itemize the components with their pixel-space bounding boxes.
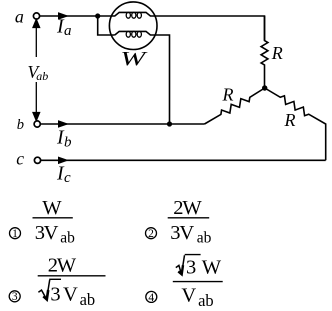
label Vab [28, 62, 49, 83]
svg-text:1: 1 [12, 228, 18, 240]
voltage arrow Vab (upper half, points up to a) [33, 20, 40, 58]
svg-text:a: a [15, 6, 24, 26]
svg-text:ab: ab [36, 69, 48, 83]
svg-text:W: W [57, 255, 77, 277]
value label R (top) [271, 43, 283, 63]
svg-text:4: 4 [148, 292, 154, 304]
svg-text:c: c [16, 149, 24, 169]
current arrow Ib [58, 121, 68, 127]
wattmeter U1 case [109, 2, 157, 50]
resistor R (right, phase c) with leads [265, 88, 326, 160]
svg-text:b: b [64, 135, 72, 151]
current arrow Ia [58, 13, 68, 19]
svg-text:ab: ab [197, 230, 212, 247]
svg-text:V: V [44, 222, 59, 244]
label Ia [56, 16, 72, 40]
svg-text:3: 3 [12, 291, 18, 303]
junction on line b (voltage coil return) [167, 121, 172, 126]
wire: voltage coil left lead (down from junction, right into case) [98, 16, 115, 35]
svg-text:V: V [181, 284, 196, 306]
svg-text:c: c [64, 170, 71, 186]
wattmeter current coil (top) [112, 12, 155, 18]
svg-text:ab: ab [198, 291, 214, 310]
svg-text:R: R [284, 110, 296, 130]
option 3 marker (circled 3) [9, 291, 20, 303]
svg-text:W: W [202, 256, 222, 278]
junction on line a (wattmeter voltage tap) [95, 13, 100, 18]
voltage arrow Vab (lower half, points down to b) [33, 82, 40, 121]
option 4 marker (circled 4) [146, 291, 157, 303]
svg-text:b: b [17, 117, 24, 133]
value label R (left) [222, 85, 234, 105]
option 1 marker (circled 1) [10, 228, 21, 240]
wire: line a from wattmeter to top-right corner and down [155, 16, 265, 41]
current arrow Ic [58, 157, 68, 163]
svg-text:3: 3 [186, 256, 196, 278]
wire: line b [40, 123, 204, 125]
wire: line c [41, 159, 326, 161]
option 2 marker (circled 2) [146, 228, 157, 240]
option 1 formula W/(3Vab) [33, 197, 76, 247]
svg-text:W: W [182, 197, 202, 219]
svg-text:V: V [179, 222, 194, 244]
label Ib [56, 127, 72, 151]
resistor R (top, phase a) [261, 16, 268, 88]
svg-text:R: R [271, 43, 283, 63]
label Ic [56, 163, 71, 186]
resistor R (left, phase b) with leads [205, 88, 265, 124]
option 3 formula 2W/(sqrt3 Vab) [38, 255, 106, 309]
value label R (right) [284, 110, 296, 130]
node b label [17, 117, 24, 133]
wire: voltage coil right lead down to line b [155, 35, 170, 124]
terminal b [34, 121, 40, 127]
wire: line a from terminal to wattmeter [40, 15, 112, 17]
wattmeter voltage coil (bottom) [115, 31, 155, 37]
svg-text:W: W [120, 47, 148, 70]
svg-text:R: R [222, 85, 234, 105]
star point node [262, 85, 267, 90]
terminal a [33, 13, 39, 19]
svg-text:2: 2 [148, 228, 154, 240]
svg-text:ab: ab [80, 290, 96, 309]
option 4 formula sqrt3 W/Vab [173, 255, 223, 310]
label W (wattmeter) [120, 47, 148, 70]
node c label [16, 149, 24, 169]
node a label [15, 6, 24, 26]
terminal c [34, 157, 40, 163]
svg-text:W: W [42, 197, 62, 219]
svg-text:ab: ab [60, 230, 75, 247]
svg-text:3: 3 [50, 283, 60, 305]
svg-text:a: a [64, 23, 72, 39]
svg-text:V: V [63, 283, 78, 305]
option 2 formula 2W/(3Vab) [168, 197, 212, 247]
